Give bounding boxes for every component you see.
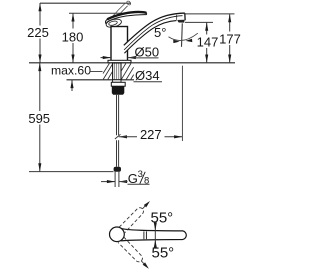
deck top line [29,62,235,64]
svg-text:55°: 55° [151,210,174,227]
base flange [108,60,131,63]
svg-text:5°: 5° [154,25,166,40]
dimension 180 [62,13,84,63]
top view lever bulb [110,227,125,242]
flexible hose lower [117,140,119,167]
dimension 147 [197,22,219,62]
lever phantom raised [113,0,132,18]
svg-text:595: 595 [28,111,50,126]
svg-text:G: G [128,171,138,186]
flexible hose upper [117,95,119,135]
svg-text:180: 180 [62,29,84,44]
svg-text:227: 227 [140,127,162,142]
dimension diameter 50 [101,45,160,60]
deck hatching right [121,64,133,80]
spout [124,13,185,53]
label diameter 34 [134,68,163,83]
595 baseline [29,171,114,173]
hose end fitting [114,167,121,172]
deck bottom line [67,79,135,81]
top view lever stem [122,229,187,241]
lever handle [106,12,147,24]
mounting collar [111,80,125,86]
mounting nut [112,86,125,95]
svg-text:225: 225 [27,25,49,40]
dimension 227 [115,127,182,142]
faucet body [111,27,128,61]
dimension 225 [27,3,49,63]
connection pipe [115,172,119,187]
threaded shank [113,63,121,80]
svg-text:147: 147 [197,34,219,49]
phantom lever rotated down 55 [118,237,152,270]
extension line 177 level [184,13,235,15]
lever pivot dome [105,18,122,29]
extension line 147 level [185,21,213,23]
svg-text:55°: 55° [152,245,175,262]
dimension 595 [28,63,50,172]
wire extension line 180 level [69,12,128,14]
phantom lever rotated up 55 [119,198,153,232]
spout aerator outlet [177,15,185,23]
deck hatching left [103,64,113,80]
label 55 bottom [152,245,175,262]
svg-text:Ø34: Ø34 [135,68,160,83]
dimension 177 [219,14,241,63]
label 55 top [151,210,174,227]
wire extension line top (225 level) [40,2,131,4]
water stream line 5deg [181,23,184,47]
svg-text:max.60: max.60 [51,64,91,78]
label G 3/8 [101,169,150,186]
svg-text:177: 177 [219,31,241,46]
swivel arrow vertical [154,222,157,248]
label max.60 [51,64,103,91]
227 extension line [181,66,183,141]
svg-text:8: 8 [144,176,149,187]
5 degree arc with arrows [154,25,198,43]
svg-text:Ø50: Ø50 [135,45,160,60]
